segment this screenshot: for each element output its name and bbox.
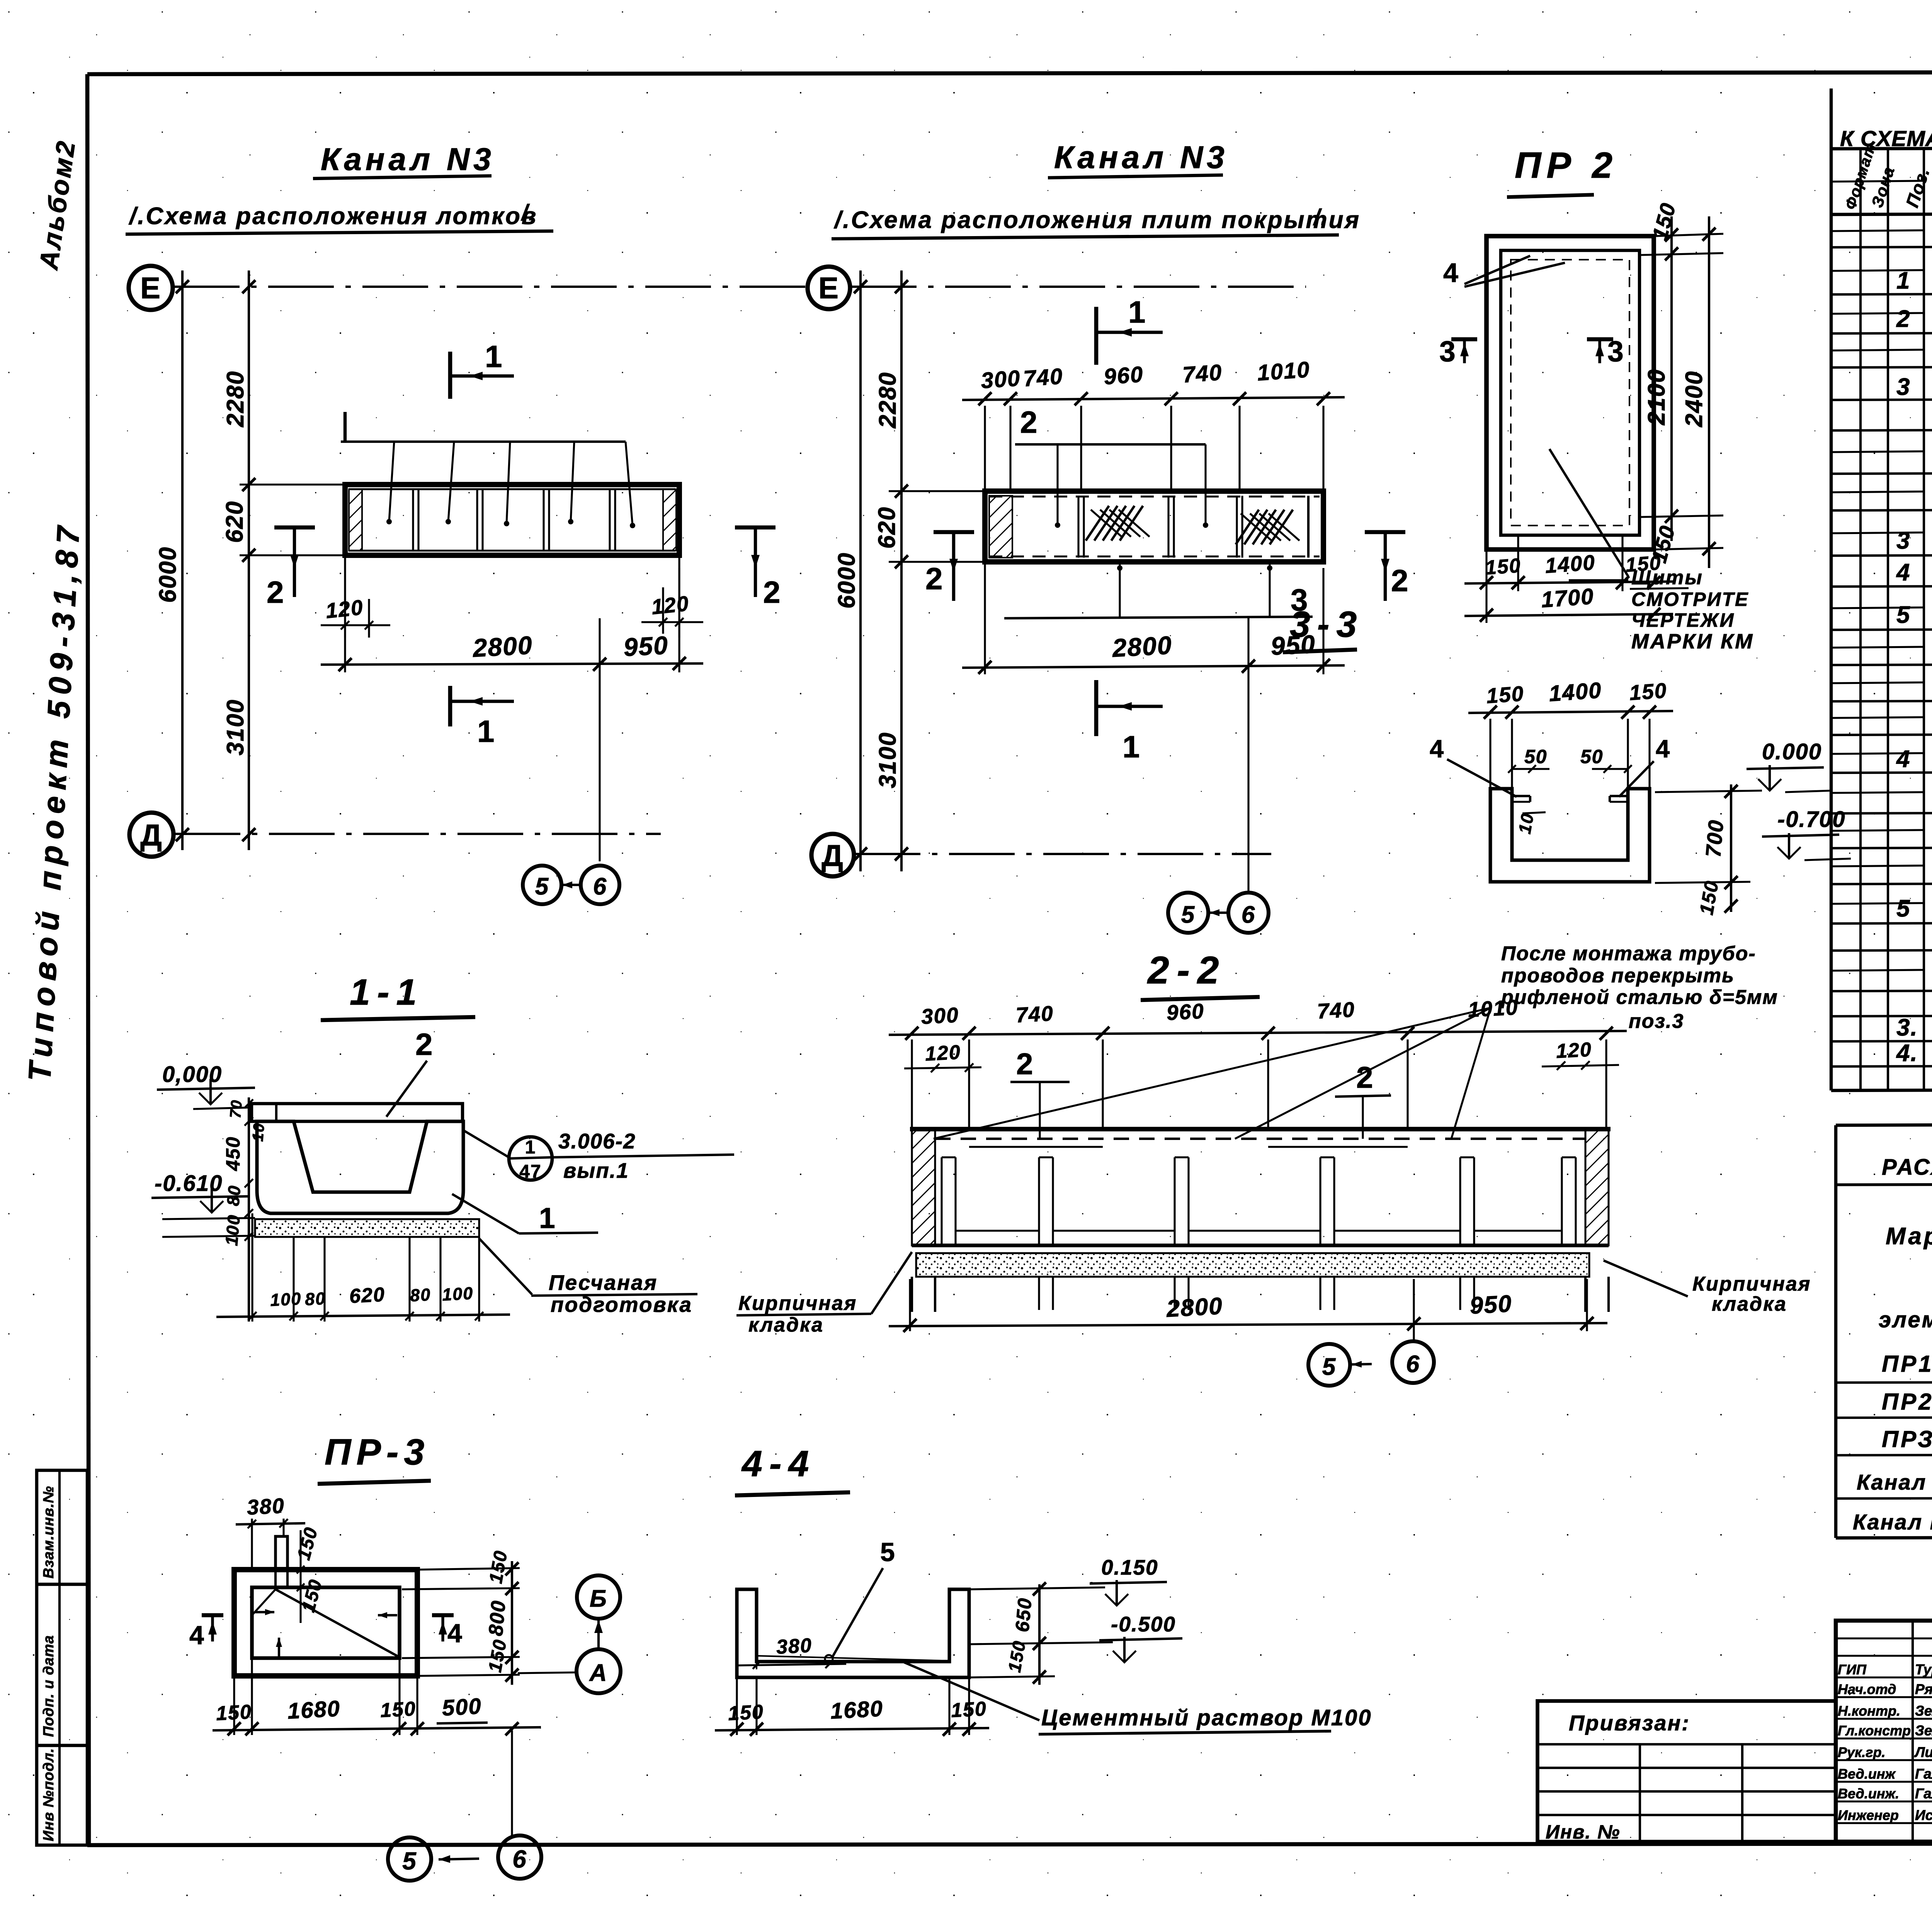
- svg-text:ГИП: ГИП: [1838, 1662, 1867, 1677]
- svg-text:Инв №подл.: Инв №подл.: [41, 1748, 57, 1841]
- svg-text:0,000: 0,000: [162, 1062, 222, 1087]
- svg-text:1: 1: [477, 714, 495, 748]
- svg-text:Канал N3: Канал N3: [1853, 1510, 1932, 1534]
- svg-text:120: 120: [650, 591, 690, 619]
- svg-text:2800: 2800: [471, 631, 533, 662]
- svg-text:3-3: 3-3: [1290, 604, 1364, 645]
- svg-text:РАСХОДА СТАЛИ НА ЗАКЛАДН: РАСХОДА СТАЛИ НА ЗАКЛАДНЫЕ ИЗДЕЛИЯ: [1882, 1155, 1932, 1180]
- svg-text:950: 950: [1469, 1290, 1513, 1319]
- svg-text:960: 960: [1103, 362, 1144, 390]
- svg-text:МАРКИ КМ: МАРКИ КМ: [1631, 630, 1754, 653]
- svg-text:2280: 2280: [222, 371, 249, 427]
- svg-text:2: 2: [763, 575, 781, 609]
- svg-text:150: 150: [728, 1701, 765, 1725]
- svg-text:ПР2: ПР2: [1882, 1389, 1932, 1415]
- svg-text:120: 120: [1556, 1038, 1593, 1063]
- svg-text:2800: 2800: [1165, 1293, 1223, 1322]
- svg-text:А: А: [589, 1660, 608, 1686]
- svg-text:5: 5: [535, 873, 549, 900]
- svg-text:380: 380: [246, 1493, 285, 1519]
- svg-text:1: 1: [485, 339, 503, 374]
- svg-text:2: 2: [415, 1027, 434, 1061]
- svg-text:Д: Д: [140, 818, 163, 852]
- svg-text:Инженер: Инженер: [1838, 1807, 1899, 1823]
- svg-text:47: 47: [519, 1162, 541, 1182]
- svg-text:2: 2: [267, 575, 285, 609]
- svg-text:5: 5: [402, 1847, 417, 1875]
- svg-text:ПР1: ПР1: [1882, 1351, 1932, 1377]
- svg-text:Подп. и дата: Подп. и дата: [41, 1635, 57, 1737]
- svg-text:Турнюский: Турнюский: [1915, 1662, 1932, 1677]
- svg-text:150: 150: [380, 1698, 417, 1722]
- svg-text:Щиты: Щиты: [1631, 566, 1703, 589]
- svg-text:Марка: Марка: [1886, 1223, 1932, 1250]
- svg-text:450: 450: [222, 1136, 244, 1171]
- svg-text:4: 4: [189, 1621, 205, 1650]
- svg-text:/.Схема расположения лотков: /.Схема расположения лотков: [128, 203, 537, 230]
- svg-text:6: 6: [512, 1845, 527, 1873]
- svg-text:1: 1: [1122, 730, 1141, 764]
- svg-text:150: 150: [216, 1701, 253, 1725]
- svg-text:10: 10: [1515, 811, 1538, 835]
- svg-text:300: 300: [980, 366, 1021, 393]
- svg-text:СМОТРИТЕ: СМОТРИТЕ: [1631, 589, 1749, 610]
- svg-text:1-1: 1-1: [350, 972, 423, 1013]
- svg-text:Цементный раствор М100: Цементный раствор М100: [1041, 1705, 1372, 1730]
- svg-text:ЧЕРТЕЖИ: ЧЕРТЕЖИ: [1631, 609, 1735, 631]
- svg-text:Привязан:: Привязан:: [1569, 1711, 1690, 1735]
- svg-text:1680: 1680: [287, 1696, 341, 1724]
- svg-text:3: 3: [1607, 335, 1624, 367]
- svg-text:Нач.отд: Нач.отд: [1838, 1681, 1896, 1697]
- svg-text:1: 1: [1896, 267, 1910, 294]
- svg-text:1: 1: [525, 1137, 536, 1158]
- svg-text:80: 80: [304, 1288, 327, 1309]
- svg-text:Е: Е: [140, 271, 161, 305]
- svg-text:2400: 2400: [1681, 371, 1708, 427]
- svg-text:Д: Д: [821, 839, 844, 873]
- svg-text:/.: /.: [1313, 205, 1328, 230]
- svg-text:6: 6: [1406, 1351, 1420, 1378]
- svg-text:5: 5: [1896, 602, 1910, 628]
- svg-text:ПР-3: ПР-3: [325, 1432, 430, 1473]
- svg-text:Гл.констр: Гл.констр: [1838, 1723, 1911, 1738]
- svg-text:-0.500: -0.500: [1111, 1612, 1176, 1636]
- svg-text:740: 740: [1182, 360, 1223, 388]
- svg-text:3: 3: [1896, 374, 1910, 400]
- svg-text:Вед.инж: Вед.инж: [1838, 1766, 1896, 1782]
- svg-text:740: 740: [1316, 997, 1355, 1023]
- svg-text:150: 150: [1486, 681, 1525, 708]
- svg-text:4: 4: [1656, 735, 1670, 763]
- svg-text:4: 4: [1443, 258, 1459, 288]
- svg-text:380: 380: [776, 1634, 813, 1658]
- svg-text:Песчаная: Песчаная: [549, 1271, 658, 1294]
- svg-text:740: 740: [1015, 1001, 1054, 1027]
- svg-text:80: 80: [410, 1284, 432, 1305]
- svg-text:рифленой сталью δ=5мм: рифленой сталью δ=5мм: [1500, 986, 1778, 1009]
- svg-text:6000: 6000: [833, 552, 860, 609]
- svg-text:/.: /.: [520, 200, 536, 225]
- svg-text:2-2: 2-2: [1147, 949, 1227, 992]
- svg-text:3: 3: [1439, 335, 1456, 367]
- svg-text:Галактионова: Галактионова: [1915, 1786, 1932, 1801]
- svg-text:кладка: кладка: [1712, 1293, 1787, 1315]
- svg-text:2: 2: [1020, 405, 1038, 439]
- svg-text:2: 2: [1356, 1060, 1374, 1094]
- svg-text:620: 620: [221, 501, 248, 543]
- svg-text:6: 6: [593, 873, 607, 900]
- svg-text:5: 5: [1322, 1354, 1336, 1380]
- svg-text:100: 100: [442, 1283, 474, 1305]
- svg-text:2: 2: [1391, 563, 1409, 598]
- svg-text:-0.700: -0.700: [1777, 807, 1845, 832]
- svg-text:5: 5: [1896, 895, 1910, 922]
- svg-text:Вед.инж.: Вед.инж.: [1838, 1786, 1899, 1801]
- svg-text:1010: 1010: [1467, 995, 1519, 1022]
- svg-text:элемента: элемента: [1879, 1307, 1932, 1332]
- svg-text:5: 5: [880, 1538, 896, 1567]
- svg-text:500: 500: [441, 1694, 482, 1721]
- svg-text:0.000: 0.000: [1762, 739, 1822, 764]
- svg-text:4: 4: [1896, 559, 1910, 586]
- svg-text:50: 50: [1580, 746, 1604, 767]
- svg-text:960: 960: [1166, 999, 1205, 1025]
- svg-text:вып.1: вып.1: [563, 1158, 629, 1182]
- svg-text:2: 2: [925, 561, 944, 596]
- svg-text:4: 4: [1430, 735, 1444, 763]
- svg-text:Лисунов: Лисунов: [1914, 1744, 1932, 1760]
- svg-text:/.Схема расположения плит по: /.Схема расположения плит покрытия: [833, 207, 1361, 233]
- svg-text:150: 150: [1629, 678, 1668, 705]
- svg-text:Б: Б: [590, 1585, 607, 1612]
- svg-text:4: 4: [1896, 746, 1910, 772]
- svg-text:3100: 3100: [222, 699, 249, 755]
- svg-text:6: 6: [1242, 902, 1255, 928]
- svg-text:2100: 2100: [1643, 369, 1670, 425]
- svg-text:Н.контр.: Н.контр.: [1838, 1703, 1900, 1719]
- svg-text:5: 5: [1181, 902, 1195, 928]
- svg-text:Е: Е: [818, 271, 839, 305]
- svg-text:Инв. №: Инв. №: [1546, 1821, 1620, 1843]
- svg-text:620: 620: [874, 507, 900, 549]
- svg-text:поз.3: поз.3: [1629, 1010, 1684, 1032]
- svg-text:1700: 1700: [1540, 584, 1595, 612]
- svg-text:1400: 1400: [1548, 678, 1602, 706]
- svg-text:2: 2: [1016, 1047, 1034, 1081]
- svg-text:После монтажа трубо-: После монтажа трубо-: [1501, 942, 1756, 965]
- svg-text:3.006-2: 3.006-2: [558, 1129, 636, 1153]
- svg-text:Канал N3: Канал N3: [1054, 140, 1228, 175]
- svg-text:300: 300: [920, 1003, 959, 1029]
- svg-text:4: 4: [447, 1619, 463, 1648]
- svg-text:Кирпичная: Кирпичная: [1692, 1273, 1811, 1295]
- svg-text:1: 1: [1128, 295, 1146, 329]
- svg-text:1400: 1400: [1544, 550, 1596, 578]
- svg-text:1: 1: [539, 1202, 556, 1234]
- svg-text:150: 150: [951, 1698, 988, 1722]
- svg-text:950: 950: [623, 631, 669, 662]
- svg-text:проводов перекрыть: проводов перекрыть: [1501, 964, 1735, 987]
- svg-text:0.150: 0.150: [1101, 1555, 1158, 1579]
- svg-text:700: 700: [1701, 818, 1728, 858]
- svg-text:4.: 4.: [1896, 1040, 1918, 1067]
- svg-text:1680: 1680: [830, 1696, 884, 1724]
- svg-text:3.: 3.: [1896, 1014, 1918, 1041]
- svg-text:ПРЗ: ПРЗ: [1882, 1426, 1932, 1452]
- svg-text:кладка: кладка: [748, 1314, 824, 1336]
- svg-text:Зеленский: Зеленский: [1915, 1723, 1932, 1738]
- svg-text:620: 620: [349, 1283, 386, 1308]
- svg-text:650: 650: [1011, 1597, 1036, 1633]
- svg-text:3: 3: [1896, 527, 1910, 554]
- svg-text:2280: 2280: [874, 372, 901, 429]
- svg-text:Исаенко: Исаенко: [1915, 1807, 1932, 1823]
- svg-text:Галактионова: Галактионова: [1915, 1766, 1932, 1782]
- svg-text:50: 50: [1524, 746, 1548, 767]
- svg-text:Канал N4: Канал N4: [1857, 1470, 1932, 1494]
- svg-text:740: 740: [1022, 364, 1064, 391]
- svg-text:Зеленский: Зеленский: [1915, 1703, 1932, 1719]
- svg-text:70: 70: [227, 1099, 245, 1119]
- svg-text:2: 2: [1896, 306, 1910, 332]
- svg-text:Рук.гр.: Рук.гр.: [1838, 1744, 1886, 1760]
- svg-text:Кирпичная: Кирпичная: [738, 1292, 857, 1315]
- svg-text:2800: 2800: [1111, 631, 1173, 662]
- svg-text:4-4: 4-4: [741, 1443, 816, 1484]
- svg-text:Канал N3: Канал N3: [321, 142, 495, 177]
- svg-text:100: 100: [270, 1289, 302, 1310]
- svg-text:1010: 1010: [1256, 357, 1311, 386]
- svg-text:ПР 2: ПР 2: [1515, 145, 1618, 186]
- svg-text:120: 120: [925, 1041, 962, 1065]
- svg-text:Рядько: Рядько: [1915, 1681, 1932, 1697]
- svg-text:Взам.инв.№: Взам.инв.№: [41, 1486, 57, 1579]
- svg-text:800: 800: [485, 1599, 510, 1637]
- svg-text:3100: 3100: [874, 732, 901, 788]
- svg-text:6000: 6000: [155, 546, 181, 603]
- svg-text:10: 10: [249, 1122, 268, 1142]
- svg-text:150: 150: [1485, 555, 1522, 579]
